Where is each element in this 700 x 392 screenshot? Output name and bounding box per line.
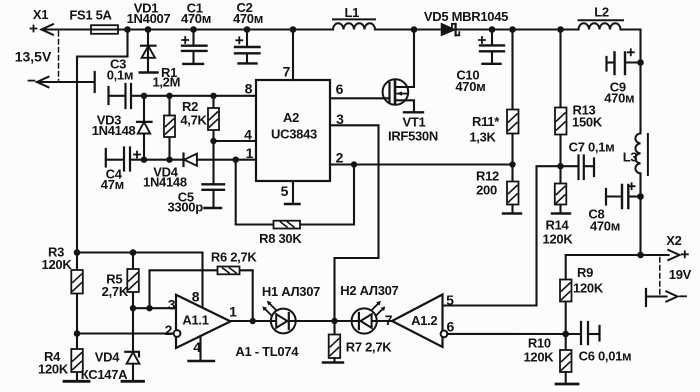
node: R3/R4 junction bbox=[74, 330, 81, 337]
diode VD1 1N4007 bbox=[127, 1, 171, 73]
wire: L2 to right corner and down bbox=[621, 30, 641, 132]
capacitor C8 470u bbox=[588, 183, 640, 233]
resistor R6 2,7K feedback bbox=[150, 250, 258, 322]
wire: pin 3 line of A1.1 bbox=[133, 307, 176, 309]
wire: X2 output line bbox=[566, 254, 669, 256]
wire: IC pin 2 to R11/R12 divider bbox=[330, 150, 513, 166]
svg-text:1N4148: 1N4148 bbox=[143, 175, 187, 190]
node: R2 / pin4 junction bbox=[210, 138, 216, 144]
node: pin1 line / R8 branch junction bbox=[233, 157, 239, 163]
svg-text:7: 7 bbox=[385, 312, 393, 328]
svg-text:13,5V: 13,5V bbox=[15, 49, 52, 65]
resistor R3 120K bbox=[42, 245, 83, 294]
svg-text:470м: 470м bbox=[455, 79, 485, 94]
svg-text:470м: 470м bbox=[590, 219, 620, 234]
inductor L2 bbox=[579, 5, 624, 30]
node: R6 output junction bbox=[250, 318, 256, 324]
label 19V bbox=[669, 267, 692, 282]
svg-text:R12: R12 bbox=[476, 169, 499, 184]
wire: L1 to VD5 bbox=[375, 28, 442, 30]
svg-text:1: 1 bbox=[246, 145, 254, 161]
capacitor C9 470u bbox=[604, 49, 640, 105]
wire: +13.5 to R5 and A1.1 pin 8 bbox=[77, 253, 203, 308]
svg-text:C7 0,1м: C7 0,1м bbox=[569, 140, 615, 155]
svg-text:VD4: VD4 bbox=[95, 350, 120, 365]
resistor R14 120K bbox=[543, 166, 574, 246]
svg-text:0,1м: 0,1м bbox=[107, 68, 134, 83]
svg-text:8: 8 bbox=[245, 81, 253, 97]
svg-text:2: 2 bbox=[336, 150, 344, 166]
svg-text:6: 6 bbox=[336, 81, 344, 97]
svg-text:3300p: 3300p bbox=[168, 200, 204, 215]
node: R9/R10/C6 junction bbox=[562, 331, 569, 338]
svg-text:3: 3 bbox=[336, 111, 344, 127]
pin 4 label bbox=[244, 127, 252, 143]
svg-text:1,2M: 1,2M bbox=[152, 75, 180, 90]
svg-text:5: 5 bbox=[281, 183, 289, 199]
svg-text:A1.1: A1.1 bbox=[182, 313, 208, 328]
svg-text:R7 2,7K: R7 2,7K bbox=[346, 340, 393, 355]
node: VD3 top bbox=[141, 93, 147, 99]
node: R3 top / +13.5 line bbox=[74, 249, 81, 256]
node: R1 top bbox=[166, 93, 172, 99]
pin 5 wire with end bar bbox=[281, 181, 300, 204]
node: R11/R12 junction bbox=[509, 161, 515, 167]
node: R6 branch on pin3 line bbox=[146, 305, 152, 311]
svg-text:1N4007: 1N4007 bbox=[127, 11, 171, 26]
svg-text:4: 4 bbox=[244, 127, 252, 143]
wire: L3 down to X2 line bbox=[639, 173, 641, 255]
capacitor C5 3300p bbox=[168, 184, 224, 214]
resistor R10 120K bbox=[523, 334, 578, 384]
svg-text:470м: 470м bbox=[181, 11, 211, 26]
svg-text:47м: 47м bbox=[101, 177, 124, 192]
wire: A1.2 pin 6 output with bubble bbox=[441, 331, 566, 338]
resistor R8 30K bbox=[236, 160, 303, 246]
svg-text:1: 1 bbox=[229, 304, 237, 320]
wire: VD5 to L2 bbox=[457, 28, 579, 30]
svg-text:L3: L3 bbox=[623, 150, 638, 165]
node: VT1 drain on rail bbox=[411, 26, 418, 33]
wire: A1.1 pin 4 to ground bar bbox=[189, 336, 215, 361]
capacitor C3 0,1u bbox=[107, 57, 134, 109]
node: C10 top bbox=[489, 26, 496, 33]
svg-text:2,7K: 2,7K bbox=[102, 284, 129, 299]
diode VD4 1N4148 bbox=[143, 154, 197, 190]
svg-text:A2: A2 bbox=[283, 110, 299, 125]
svg-text:470м: 470м bbox=[604, 91, 634, 106]
capacitor C2 470u bbox=[233, 0, 263, 63]
svg-text:R14: R14 bbox=[546, 218, 570, 233]
svg-text:470м: 470м bbox=[233, 11, 263, 26]
svg-text:4,7K: 4,7K bbox=[180, 113, 207, 128]
svg-text:120K: 120K bbox=[42, 257, 73, 272]
node: C8 junction bbox=[637, 193, 644, 200]
svg-text:R6 2,7K: R6 2,7K bbox=[211, 250, 258, 265]
svg-text:VD5 MBR1045: VD5 MBR1045 bbox=[424, 9, 508, 24]
svg-text:R10: R10 bbox=[528, 336, 551, 351]
wire: IC pin 3 routing down to LED junction bbox=[330, 111, 379, 321]
wire: IC pin 6 to gate bbox=[330, 81, 390, 98]
node: X2 line / right vertical bbox=[637, 252, 644, 259]
svg-text:2: 2 bbox=[165, 322, 173, 338]
node: R5 bottom / zener junction bbox=[130, 305, 136, 311]
op-amp A1.1 bbox=[165, 289, 238, 356]
svg-text:L2: L2 bbox=[594, 5, 609, 20]
capacitor C6 0,01u bbox=[566, 322, 632, 364]
zener VD4 KC147A bbox=[81, 308, 144, 382]
svg-text:120K: 120K bbox=[523, 350, 554, 365]
resistor R9 120K bbox=[560, 255, 604, 334]
diode VD5 MBR1045 bbox=[424, 9, 508, 35]
resistor R11* 1,3K bbox=[469, 30, 518, 165]
svg-text:VT1: VT1 bbox=[403, 115, 426, 130]
node: R1 bottom junction bbox=[166, 157, 172, 163]
svg-text:3: 3 bbox=[168, 297, 176, 313]
inductor L3 bbox=[623, 133, 648, 175]
svg-text:120K: 120K bbox=[38, 362, 69, 377]
node: R13 top bbox=[557, 26, 564, 33]
svg-text:200: 200 bbox=[476, 183, 497, 198]
wire: pin2 branch down to R8 bbox=[300, 165, 354, 225]
op-amp A1.2 bbox=[385, 295, 455, 348]
wire: X1 plus to fuse and top rail bbox=[42, 28, 334, 30]
connector X2 plus terminal bbox=[666, 233, 688, 260]
pin 1 label bbox=[246, 145, 254, 161]
svg-text:H1 АЛ307: H1 АЛ307 bbox=[262, 284, 320, 299]
connector X1 label bbox=[33, 7, 48, 22]
resistor R12 200 bbox=[476, 165, 521, 214]
wire: +13.5V branch down left side bbox=[77, 30, 128, 381]
svg-text:C6 0,01м: C6 0,01м bbox=[579, 349, 632, 364]
svg-text:120K: 120K bbox=[573, 281, 604, 296]
svg-text:L1: L1 bbox=[345, 5, 360, 20]
pin 8 label bbox=[245, 81, 253, 97]
svg-text:X1: X1 bbox=[33, 7, 48, 22]
diode VD3 1N4148 bbox=[92, 96, 152, 160]
svg-text:R11*: R11* bbox=[472, 114, 500, 129]
X1 minus terminal bbox=[29, 77, 49, 88]
X2 dashed connector line bbox=[659, 258, 661, 296]
capacitor C10 470u bbox=[455, 30, 504, 95]
op-amp supply IC A2 UC3843 box bbox=[256, 80, 330, 181]
node: VD3 bottom / C4 junction bbox=[141, 157, 147, 163]
svg-text:8: 8 bbox=[192, 289, 200, 305]
wire: R2 bottom to IC pin 4 bbox=[214, 140, 257, 142]
wire: pin 2 line of A1.1 from divider bbox=[77, 332, 173, 334]
label 13,5V bbox=[15, 49, 52, 65]
node: pin2 / R8 branch bbox=[351, 161, 357, 167]
wire: C3 to IC pin 8 line bbox=[131, 95, 256, 97]
fuse FS1 5A bbox=[69, 8, 118, 34]
capacitor C7 0,1u bbox=[561, 140, 615, 180]
LED H2 AL307 bbox=[340, 283, 398, 334]
node: R2 top bbox=[210, 93, 216, 99]
svg-text:R8 30K: R8 30K bbox=[259, 231, 302, 246]
svg-text:1N4148: 1N4148 bbox=[92, 123, 136, 138]
node: VD1 top bbox=[145, 26, 152, 33]
svg-text:5: 5 bbox=[446, 292, 454, 308]
node: C2 top bbox=[244, 26, 251, 33]
svg-text:A1.2: A1.2 bbox=[411, 313, 437, 328]
svg-text:UC3843: UC3843 bbox=[271, 127, 317, 142]
node: pin 7 on rail bbox=[290, 26, 297, 33]
resistor R13 150K bbox=[555, 30, 603, 167]
wire: minus lead with end bar bbox=[37, 72, 95, 92]
node: R13/R14/C7 junction bbox=[557, 163, 563, 169]
node: R11 top bbox=[509, 26, 516, 33]
X1 plus terminal bbox=[31, 24, 54, 35]
resistor R2 4,7K bbox=[180, 96, 219, 184]
node: C9 junction bbox=[637, 59, 644, 66]
transistor VT1 IRF530N bbox=[383, 30, 438, 144]
resistor R1 1,2M bbox=[152, 65, 180, 160]
capacitor C4 47u bbox=[101, 148, 140, 193]
X1 dashed connector line bbox=[58, 32, 60, 81]
svg-text:IRF530N: IRF530N bbox=[388, 129, 438, 144]
svg-text:X2: X2 bbox=[666, 233, 681, 248]
svg-text:150K: 150K bbox=[572, 115, 603, 130]
wire: C4 to IC pin 1 line bbox=[130, 159, 256, 161]
resistor R4 120K bbox=[38, 349, 89, 381]
svg-text:1,3K: 1,3K bbox=[469, 130, 496, 145]
wire: A1.1 output line to A1.2 bbox=[231, 320, 393, 322]
resistor R7 2,7K bbox=[323, 321, 392, 363]
svg-text:7: 7 bbox=[283, 64, 291, 80]
label A1 - TL074 bbox=[235, 344, 299, 359]
svg-text:19V: 19V bbox=[669, 267, 692, 282]
svg-text:H2 АЛ307: H2 АЛ307 bbox=[340, 283, 398, 298]
svg-text:КС147А: КС147А bbox=[81, 367, 128, 382]
node: R5 top bbox=[130, 249, 137, 256]
svg-text:A1 - TL074: A1 - TL074 bbox=[235, 344, 299, 359]
node: H1/H2/R7 junction bbox=[331, 318, 337, 324]
wire: C7 junction to A1.2 pin 5 bbox=[443, 166, 561, 308]
svg-text:R9: R9 bbox=[577, 265, 593, 280]
pin 7 wire and label bbox=[283, 30, 293, 81]
svg-text:FS1 5A: FS1 5A bbox=[69, 8, 112, 23]
svg-text:120K: 120K bbox=[543, 232, 574, 247]
node: C1 top bbox=[190, 26, 197, 33]
node: fuse output junction bbox=[124, 26, 131, 33]
LED H1 AL307 bbox=[262, 284, 320, 333]
resistor R5 2,7K bbox=[102, 253, 139, 309]
inductor L1 bbox=[333, 5, 375, 30]
capacitor C1 470u bbox=[181, 1, 211, 64]
connector X2 minus terminal bbox=[646, 289, 686, 306]
